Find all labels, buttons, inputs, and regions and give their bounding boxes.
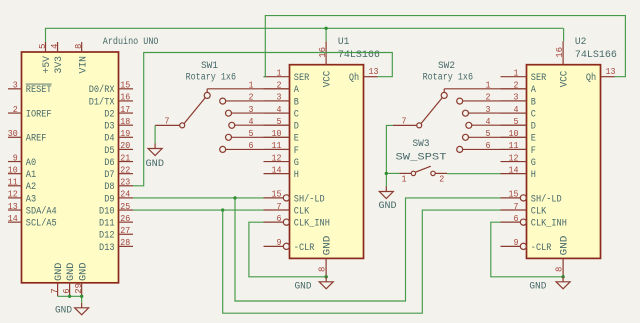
U1 pin 3 B [264, 92, 299, 109]
svg-text:A: A [294, 85, 299, 96]
svg-text:4: 4 [486, 116, 491, 127]
svg-text:SW3: SW3 [413, 139, 430, 150]
Arduino pin 4 3V3 [49, 42, 65, 74]
svg-text:74LS166: 74LS166 [575, 50, 617, 61]
wire D10 branch to U2 CLK [223, 210, 501, 313]
svg-text:+5V: +5V [42, 56, 53, 74]
wire U2 Qh to U1 SER [264, 16, 626, 77]
svg-text:D6: D6 [104, 158, 114, 169]
svg-text:11: 11 [8, 177, 18, 188]
svg-text:1: 1 [514, 68, 519, 79]
svg-text:25: 25 [120, 201, 130, 212]
svg-text:D9: D9 [104, 194, 114, 205]
svg-text:14: 14 [272, 164, 282, 175]
svg-text:12: 12 [509, 152, 519, 163]
svg-text:B: B [294, 97, 299, 108]
Arduino pin 14 SCL/A5 [8, 213, 57, 230]
Arduino pin 17 D2 [104, 104, 133, 121]
svg-text:3: 3 [486, 104, 491, 115]
svg-text:D2: D2 [104, 109, 114, 120]
svg-text:F: F [294, 146, 299, 157]
svg-text:U2: U2 [575, 37, 587, 48]
U2 pin 10 E [501, 128, 536, 145]
Arduino pin 11 A2 [8, 177, 36, 194]
svg-text:6: 6 [61, 288, 72, 294]
svg-text:-CLR: -CLR [294, 243, 315, 254]
svg-text:VIN: VIN [78, 56, 89, 74]
svg-text:A3: A3 [26, 194, 36, 205]
svg-text:19: 19 [120, 128, 130, 139]
wire Arduino D10 to U1 CLK [133, 209, 264, 211]
SW3 lever [415, 166, 430, 172]
Arduino pin 3 RESET [8, 80, 52, 97]
U1 pin 16 VCC [317, 41, 334, 87]
svg-text:2: 2 [486, 92, 491, 103]
svg-text:4: 4 [49, 43, 60, 49]
svg-text:29: 29 [73, 283, 84, 294]
svg-text:D13: D13 [99, 243, 114, 254]
svg-text:18: 18 [120, 116, 130, 127]
junction U1 GND node [325, 275, 328, 278]
SW2 common pin 7 [393, 116, 422, 128]
Arduino pin 19 D4 [104, 128, 133, 145]
svg-text:SH/-LD: SH/-LD [531, 193, 562, 205]
svg-text:D3: D3 [104, 122, 114, 133]
svg-text:CLK_INH: CLK_INH [531, 219, 567, 230]
svg-text:GND: GND [55, 306, 72, 317]
svg-text:D1/TX: D1/TX [89, 96, 115, 108]
svg-text:CLK_INH: CLK_INH [294, 219, 330, 230]
svg-text:SER: SER [294, 73, 309, 84]
svg-text:6: 6 [277, 213, 282, 224]
svg-text:CLK: CLK [294, 206, 309, 217]
U2 pin 15 SH/-LD [501, 189, 562, 206]
SW2 contact 1 [441, 80, 526, 99]
svg-text:VCC: VCC [323, 71, 334, 88]
svg-text:D: D [294, 122, 299, 133]
svg-text:E: E [531, 134, 536, 145]
ground symbol at Arduino [75, 303, 89, 315]
svg-text:Rotary 1x6: Rotary 1x6 [186, 73, 236, 84]
SW2 contact 5 [463, 128, 527, 140]
SW1 wiper [184, 98, 205, 124]
ground symbol at U2 pin8 [556, 277, 570, 289]
U2 pin 8 GND [553, 236, 570, 277]
wire SW3 pin2 to U2 pin H [447, 173, 501, 175]
Arduino pin 5 +5V [37, 42, 53, 74]
svg-text:24: 24 [120, 189, 130, 200]
svg-text:E: E [294, 134, 299, 145]
svg-text:3: 3 [249, 104, 254, 115]
svg-text:CLK: CLK [531, 206, 546, 217]
SW2 contact 4 [466, 116, 527, 128]
SW2 contact 3 [463, 104, 527, 116]
U1 pin 14 H [264, 164, 299, 181]
svg-text:A0: A0 [26, 158, 36, 169]
Arduino pin 7 GND [49, 263, 65, 297]
svg-text:A1: A1 [26, 170, 36, 181]
U2 pin 16 VCC [554, 41, 571, 87]
svg-text:4: 4 [249, 116, 254, 127]
svg-text:12: 12 [272, 152, 282, 163]
SW3 pin 2 [431, 171, 447, 184]
svg-text:14: 14 [509, 164, 519, 175]
svg-text:26: 26 [120, 213, 130, 224]
svg-text:D4: D4 [104, 134, 114, 145]
SW1 contact 3 [226, 104, 290, 116]
svg-text:1: 1 [277, 68, 282, 79]
svg-text:9: 9 [277, 237, 282, 248]
svg-text:8: 8 [553, 266, 564, 272]
Arduino pin 26 D11 [99, 213, 133, 230]
svg-text:13: 13 [8, 201, 18, 212]
switch SW3 SW_SPST labels [396, 139, 447, 163]
svg-text:SW_SPST: SW_SPST [396, 152, 447, 163]
SW3 pin 1 [399, 171, 415, 184]
wire SW1 common to ground [154, 125, 156, 143]
rotary switch SW1 label [186, 61, 236, 84]
U1 pin 15 SH/-LD [264, 189, 325, 206]
svg-text:9: 9 [13, 152, 18, 163]
svg-text:GND: GND [295, 282, 312, 293]
U2 pin 3 B [501, 92, 536, 109]
svg-text:SER: SER [531, 73, 546, 84]
wire Arduino GND bus [58, 296, 82, 303]
svg-text:D12: D12 [99, 231, 114, 242]
svg-text:SCL/A5: SCL/A5 [26, 218, 57, 230]
SW1 contact 1 [204, 80, 289, 99]
SW1 common pin 7 [155, 116, 185, 128]
svg-text:SH/-LD: SH/-LD [294, 193, 325, 205]
U1 pin 9 -CLR [264, 237, 315, 254]
svg-text:7: 7 [514, 201, 519, 212]
svg-text:Qh: Qh [349, 72, 359, 84]
junction node D10 [221, 208, 224, 211]
svg-text:1: 1 [402, 173, 407, 184]
Arduino pin 9 A0 [8, 152, 36, 169]
svg-text:6: 6 [249, 140, 254, 151]
junction Arduino GND pin6 [68, 295, 71, 298]
svg-text:IOREF: IOREF [26, 109, 52, 120]
rotary switch SW2 label [423, 61, 473, 84]
svg-text:17: 17 [120, 104, 130, 115]
svg-text:GND: GND [529, 282, 546, 293]
U1 pin 10 E [264, 128, 299, 145]
wire VCC drop to U1 pin16 [325, 28, 327, 41]
junction VCC at U1 [324, 27, 327, 30]
SW2 contact 6 [457, 140, 527, 152]
svg-text:SDA/A4: SDA/A4 [26, 205, 57, 217]
svg-text:14: 14 [8, 213, 18, 224]
svg-text:RESET: RESET [26, 85, 52, 96]
svg-text:D: D [531, 122, 536, 133]
U1 pin 8 GND [316, 236, 333, 277]
svg-text:Qh: Qh [586, 72, 596, 84]
svg-text:7: 7 [49, 288, 60, 293]
svg-text:GND: GND [66, 263, 77, 282]
svg-text:3: 3 [13, 80, 18, 91]
wire SW2 common to SW3 and ground [386, 125, 392, 186]
Arduino pin 15 D0/RX [89, 80, 133, 97]
svg-text:1: 1 [249, 80, 254, 91]
svg-text:H: H [531, 170, 536, 181]
SW1 contact 6 [220, 140, 290, 152]
svg-text:D11: D11 [99, 219, 114, 230]
svg-text:7: 7 [402, 116, 407, 127]
SW1 contact 5 [226, 128, 290, 140]
U2 pin 14 H [501, 164, 536, 181]
svg-text:22: 22 [120, 164, 130, 175]
U2 pin 5 D [501, 116, 536, 133]
wire U1 Qh to Arduino D8 [133, 53, 392, 186]
svg-text:H: H [294, 170, 299, 181]
svg-text:2: 2 [13, 104, 18, 115]
svg-text:1: 1 [486, 80, 491, 91]
U1 pin 2 A [264, 80, 299, 97]
U2 pin 7 CLK [501, 201, 547, 218]
svg-text:D10: D10 [99, 206, 114, 217]
U2 pin 6 CLK_INH [501, 213, 567, 230]
junction SW3 node [385, 172, 388, 175]
svg-text:15: 15 [509, 189, 519, 200]
U1 pin 7 CLK [264, 201, 310, 218]
svg-text:21: 21 [120, 152, 130, 163]
U1 pin 4 C [264, 104, 299, 121]
Arduino pin 21 D6 [104, 152, 133, 169]
svg-text:16: 16 [120, 92, 130, 103]
svg-text:U1: U1 [338, 37, 350, 48]
wire SW3 pin1 stub [386, 172, 399, 174]
svg-text:GND: GND [323, 236, 334, 256]
svg-text:GND: GND [54, 263, 65, 282]
U2 pin 4 C [501, 104, 536, 121]
svg-text:10: 10 [8, 164, 18, 175]
U1 pin 13 Qh [349, 66, 379, 84]
svg-text:D0/RX: D0/RX [89, 84, 115, 96]
Arduino pin 12 A3 [8, 189, 36, 206]
Arduino pin 24 D9 [104, 189, 133, 206]
Arduino pin 6 GND [61, 263, 77, 297]
Arduino pin 23 D8 [104, 177, 133, 194]
svg-text:GND: GND [146, 159, 165, 170]
junction node D9 [233, 196, 236, 199]
svg-text:2: 2 [249, 92, 254, 103]
svg-text:8: 8 [73, 43, 84, 49]
Arduino pin 13 SDA/A4 [8, 201, 57, 218]
U1 pin 1 SER [264, 68, 310, 85]
svg-text:D5: D5 [104, 146, 114, 157]
svg-text:-CLR: -CLR [531, 243, 552, 254]
svg-text:GND: GND [78, 263, 89, 282]
U2 pin 13 Qh [586, 66, 616, 84]
wire D9 branch to U2 SH/-LD [235, 198, 501, 301]
svg-text:SW1: SW1 [201, 61, 218, 72]
svg-text:SW2: SW2 [438, 61, 455, 72]
svg-text:30: 30 [8, 128, 18, 139]
svg-text:23: 23 [120, 177, 130, 188]
wire VCC drop to U2 pin16 [563, 28, 565, 41]
wire Arduino D9 to U1 SH/-LD [133, 197, 264, 199]
svg-text:5: 5 [486, 128, 491, 139]
Arduino pin 8 VIN [73, 42, 89, 74]
svg-text:15: 15 [272, 189, 282, 200]
U1 pin 5 D [264, 116, 299, 133]
Arduino UNO module A1 body [22, 52, 119, 283]
svg-text:D8: D8 [104, 182, 114, 193]
U2 pin 12 G [501, 152, 536, 169]
IC U1 74LS166 body [290, 65, 364, 259]
junction U2 GND node [561, 275, 564, 278]
Arduino pin 18 D3 [104, 116, 133, 133]
svg-text:6: 6 [486, 140, 491, 151]
svg-text:F: F [531, 146, 536, 157]
svg-text:7: 7 [277, 201, 282, 212]
svg-text:D7: D7 [104, 170, 114, 181]
SW2 wiper [421, 98, 442, 124]
svg-text:74LS166: 74LS166 [338, 50, 380, 61]
Arduino pin 30 AREF [8, 128, 47, 145]
svg-text:A: A [531, 85, 536, 96]
wire U1 GND to CLK_INH [249, 222, 326, 277]
svg-text:C: C [531, 109, 536, 120]
svg-text:28: 28 [120, 237, 130, 248]
svg-text:20: 20 [120, 140, 130, 151]
svg-text:12: 12 [8, 189, 18, 200]
wire U2 GND to CLK_INH [491, 222, 563, 277]
Arduino pin 2 IOREF [8, 104, 52, 121]
svg-text:G: G [531, 158, 536, 169]
svg-text:16: 16 [554, 47, 565, 58]
svg-text:Arduino UNO: Arduino UNO [103, 36, 159, 48]
svg-text:5: 5 [37, 43, 48, 49]
Arduino pin 16 D1/TX [89, 92, 133, 109]
junction Arduino GND pin29 [80, 295, 83, 298]
svg-text:GND: GND [560, 236, 571, 256]
svg-text:AREF: AREF [26, 134, 47, 145]
Arduino pin 28 D13 [99, 237, 133, 254]
ground symbol at SW3 [379, 187, 393, 199]
SW1 contact 2 [220, 92, 290, 104]
svg-text:Rotary 1x6: Rotary 1x6 [423, 73, 473, 84]
Arduino pin 29 GND [73, 263, 89, 297]
svg-text:C: C [294, 109, 299, 120]
SW2 contact 2 [457, 92, 527, 104]
U2 pin 11 F [501, 140, 536, 157]
U1 pin 12 G [264, 152, 299, 169]
U1 pin 6 CLK_INH [264, 213, 330, 230]
U2 pin 9 -CLR [501, 237, 552, 254]
ground symbol at SW1 [148, 144, 162, 156]
Arduino pin 22 D7 [104, 164, 133, 181]
SW1 contact 4 [229, 116, 290, 128]
Arduino pin 10 A1 [8, 164, 36, 181]
svg-text:9: 9 [514, 237, 519, 248]
wire +5V from Arduino pin5 to VCC rail [46, 28, 564, 42]
svg-text:B: B [531, 97, 536, 108]
svg-text:GND: GND [379, 201, 397, 212]
svg-text:15: 15 [120, 80, 130, 91]
U1 pin 11 F [264, 140, 299, 157]
Arduino pin 20 D5 [104, 140, 133, 157]
svg-text:3V3: 3V3 [54, 56, 65, 74]
svg-text:5: 5 [249, 128, 254, 139]
U2 pin 1 SER [501, 68, 547, 85]
svg-text:VCC: VCC [560, 71, 571, 88]
IC U2 74LS166 body [527, 65, 601, 259]
ground symbol at U1 pin8 [319, 277, 333, 289]
svg-text:6: 6 [514, 213, 519, 224]
svg-text:13: 13 [606, 66, 616, 77]
svg-text:2: 2 [439, 174, 444, 185]
svg-text:13: 13 [369, 66, 379, 77]
svg-text:27: 27 [120, 225, 130, 236]
U2 pin 2 A [501, 80, 536, 97]
svg-text:G: G [294, 158, 299, 169]
svg-text:8: 8 [316, 266, 327, 272]
Arduino pin 25 D10 [99, 201, 133, 218]
svg-text:7: 7 [165, 116, 170, 127]
Arduino pin 27 D12 [99, 225, 133, 242]
svg-text:A2: A2 [26, 182, 36, 193]
